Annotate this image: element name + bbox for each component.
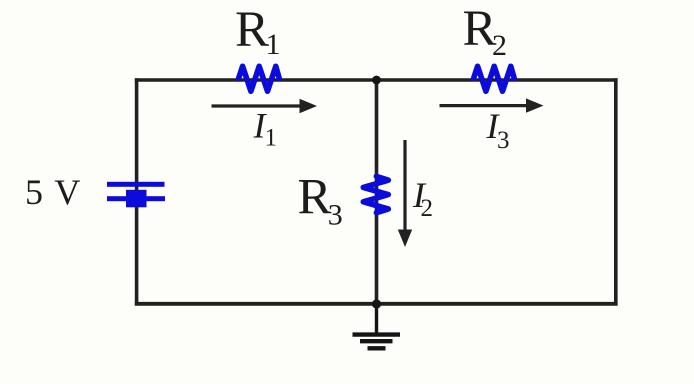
svg-text:R: R bbox=[235, 2, 269, 58]
wire bottom segment bbox=[135, 302, 618, 306]
svg-text:1: 1 bbox=[266, 28, 281, 61]
wire top-right segment bbox=[377, 78, 618, 82]
svg-text:1: 1 bbox=[265, 125, 278, 152]
svg-text:2: 2 bbox=[421, 195, 434, 222]
resistor R3 bbox=[363, 176, 388, 212]
wire right branch bbox=[614, 78, 618, 305]
node B junction dot (bottom) bbox=[372, 299, 381, 308]
battery V1 5V bbox=[107, 182, 165, 208]
ground bbox=[353, 304, 401, 349]
current arrow I3 bbox=[440, 98, 544, 112]
wire left branch bbox=[135, 78, 139, 305]
svg-text:3: 3 bbox=[328, 198, 343, 231]
svg-text:2: 2 bbox=[492, 29, 507, 62]
svg-text:3: 3 bbox=[497, 127, 510, 154]
wire middle branch bbox=[375, 80, 379, 304]
resistor R1 bbox=[239, 66, 280, 91]
node A junction dot (top) bbox=[372, 76, 381, 85]
current arrow I2 bbox=[398, 140, 412, 247]
svg-text:R: R bbox=[298, 169, 332, 225]
wire top-left segment bbox=[135, 78, 377, 82]
svg-text:5 V: 5 V bbox=[25, 172, 82, 212]
current arrow I1 bbox=[212, 99, 318, 113]
resistor R2 bbox=[474, 66, 515, 91]
